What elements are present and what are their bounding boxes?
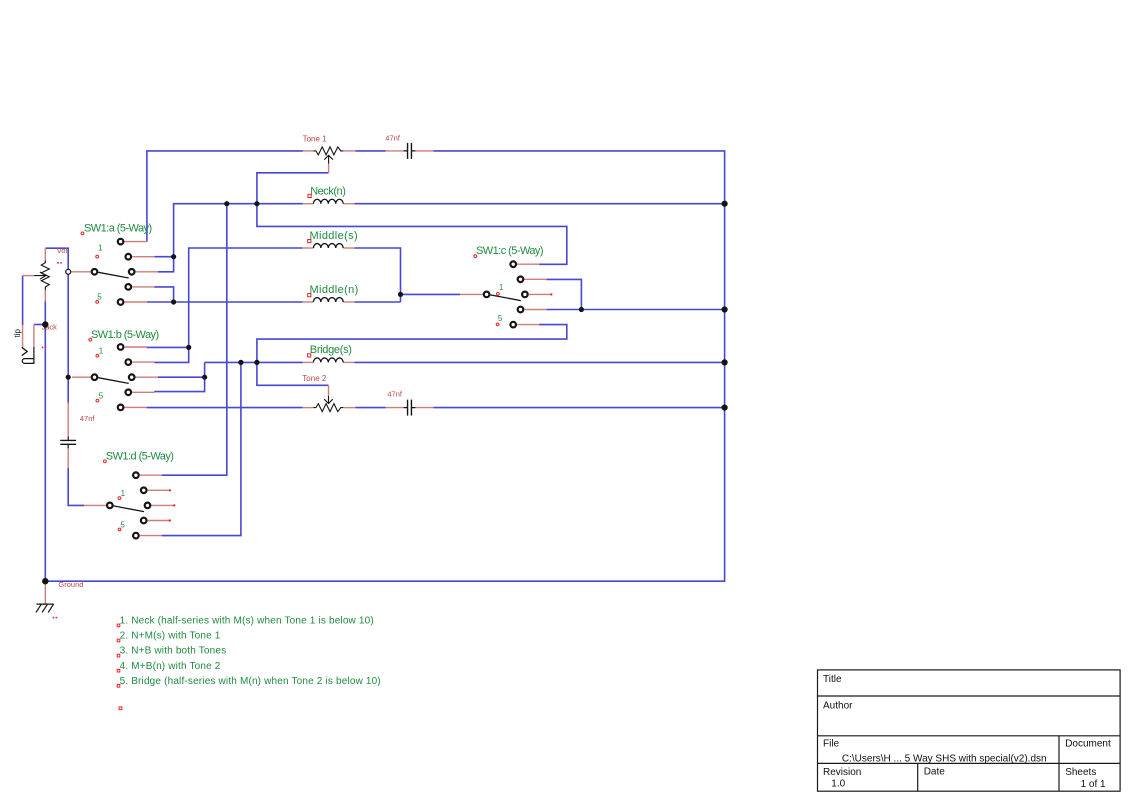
- svg-text:Author: Author: [823, 700, 853, 711]
- wire Neck right to rail: [355, 203, 725, 205]
- junction rail - Neck: [722, 201, 728, 207]
- junction SW1:a throws 2-3: [171, 254, 176, 259]
- svg-text:5: 5: [120, 521, 125, 530]
- pin stub C1 right pin: [415, 150, 433, 152]
- wire SW1:c throw2 down to throw4 row: [546, 279, 581, 309]
- marker Jack dots: [42, 347, 44, 349]
- marker Bridge(s) marker: [308, 354, 311, 357]
- SW1:d common terminal: [107, 503, 113, 509]
- SW1:a throw 2 terminal: [126, 254, 132, 260]
- pin stub Middle(n) left pin: [303, 301, 314, 303]
- SW1:a throw 3 terminal: [129, 269, 135, 275]
- SW1:a throw 4 terminal: [126, 284, 132, 290]
- SW1:d throw 5 terminal: [133, 533, 139, 539]
- junction Middle(s)-Middle(n) tie: [398, 292, 403, 297]
- junction rail - Tone2: [722, 405, 728, 411]
- jack J1 sleeve: [22, 347, 34, 363]
- SW1:c throw 4 pin stub: [525, 309, 547, 311]
- SW1:d throw 4 pin stub: [148, 520, 170, 522]
- svg-text:Bridge(s): Bridge(s): [310, 344, 352, 356]
- svg-text:SW1:c (5-Way): SW1:c (5-Way): [476, 245, 543, 257]
- pin stub Neck(n) right pin: [343, 203, 354, 205]
- switch SW1:d (5-Way): [107, 472, 174, 538]
- svg-text:Revision: Revision: [823, 767, 861, 778]
- svg-text:C:\Users\H ... 5 Way SHS with: C:\Users\H ... 5 Way SHS with special(v2…: [842, 753, 1047, 764]
- SW1:c throw 5 terminal: [510, 322, 516, 328]
- marker SW1:b pin5 marker: [96, 399, 99, 402]
- inductor Middle(s): [313, 244, 343, 248]
- SW1:d throw 5 pin stub: [140, 535, 162, 537]
- marker SW1:b marker: [89, 338, 92, 341]
- junction Jack node: [42, 321, 48, 327]
- SW1:d throw 3 terminal: [145, 503, 151, 509]
- svg-text:1: 1: [499, 283, 504, 292]
- wire jack pin2 to Vol bottom: [34, 324, 45, 326]
- svg-text:1: 1: [121, 489, 126, 498]
- svg-text:Middle(s): Middle(s): [310, 230, 358, 242]
- pin stub jack tip pin: [22, 325, 24, 347]
- SW1:b throw 4 terminal: [126, 390, 132, 396]
- marker SW1:c pin1 marker: [497, 293, 500, 296]
- pin stub Tone1 left pin: [303, 150, 314, 152]
- title block: [818, 670, 1121, 791]
- SW1:b throw 2 pin stub: [132, 361, 154, 363]
- svg-text:Date: Date: [924, 767, 946, 778]
- SW1:c throw 2 pin stub: [525, 278, 547, 280]
- wire Tone1 wiper to Neck node to SW1:c throw1: [257, 173, 567, 264]
- svg-text:SW1:b (5-Way): SW1:b (5-Way): [91, 329, 159, 341]
- marker Middle(n) marker: [308, 294, 311, 297]
- svg-text:47nf: 47nf: [387, 390, 403, 399]
- svg-text:Document: Document: [1065, 739, 1111, 750]
- junction SW1:b common tap: [66, 375, 71, 380]
- capacitor C1 47nf: [408, 143, 412, 159]
- wire SW1:a throw5 to Middle(n) left: [147, 301, 303, 303]
- wire SW1:b throw4 up to Bridge row: [154, 362, 204, 391]
- SW1:b throw 2 terminal: [126, 359, 132, 365]
- SW1:a throw 1 pin stub: [125, 241, 147, 243]
- pin stub Middle(s) left pin: [303, 247, 314, 249]
- SW1:d throw 4 terminal: [141, 518, 147, 524]
- pin stub SW1:b common pin: [72, 376, 91, 378]
- wire SW1:b throw2 up to Middle(s) left: [154, 248, 302, 362]
- SW1:a throw 1 terminal: [118, 239, 124, 245]
- pin stub Neck(n) left pin: [303, 203, 314, 205]
- wire Vol bottom to ground: [44, 301, 46, 581]
- SW1:b throw 5 terminal: [118, 405, 124, 411]
- marker stray: [119, 707, 122, 710]
- SW1:c common terminal: [484, 292, 490, 298]
- SW1:b common terminal: [92, 374, 98, 380]
- junction rail - Bridge: [722, 359, 728, 365]
- SW1:a throw 3 pin stub: [136, 271, 158, 273]
- pin stub Tone2 wiper pin: [328, 385, 330, 396]
- svg-text:Title: Title: [823, 674, 842, 685]
- SW1:c throw 5 pin stub: [517, 324, 539, 326]
- SW1:a throw 4 pin stub: [132, 286, 154, 288]
- wire Middle(n) right: [355, 301, 401, 303]
- switch SW1:c (5-Way): [484, 261, 551, 327]
- wire Tone1 cap to right rail and ground bus: [45, 151, 724, 581]
- pin stub Vol wiper pin: [23, 275, 34, 277]
- marker Neck(n) marker: [308, 194, 311, 197]
- svg-text:5: 5: [97, 293, 102, 302]
- svg-text:Vol: Vol: [57, 246, 68, 255]
- marker Middle(s) marker: [308, 240, 311, 243]
- marker SW1:a marker: [81, 232, 84, 235]
- wire SW1:a throw3 up to Neck row left: [158, 204, 303, 272]
- pin stub Bridge(s) left pin: [303, 361, 314, 363]
- wire Tone2 right pin to cap: [355, 407, 385, 409]
- marker SW1:a pin1 marker: [96, 255, 99, 258]
- svg-text:3. N+B with both Tones: 3. N+B with both Tones: [120, 646, 227, 657]
- pin stub Tone1 right pin: [343, 150, 355, 152]
- wire Tone1 right pin to cap: [355, 150, 385, 152]
- potentiometer Vol: [34, 260, 49, 290]
- capacitor C3 47nf series: [60, 440, 76, 444]
- pin stub Vol bottom pin: [44, 290, 46, 301]
- wire SW1:b throw1 to junction: [146, 346, 188, 348]
- wire SW1:c throw4 row to rail: [546, 309, 725, 311]
- SW1:c throw 3 pin stub: [529, 293, 551, 295]
- wire SW1:d throw5 up to Bridge row: [162, 362, 241, 535]
- marker Vol dots: [57, 262, 59, 264]
- SW1:b throw 5 pin stub: [125, 406, 147, 408]
- pin stub Middle(s) right pin: [343, 247, 354, 249]
- SW1:a throw 2 pin stub: [132, 256, 154, 258]
- svg-text:Sheets: Sheets: [1065, 767, 1096, 778]
- SW1:a throw 5 terminal: [118, 299, 124, 305]
- SW1:d throw 2 pin stub: [148, 489, 170, 491]
- pin stub series cap bottom pin: [67, 448, 69, 468]
- wire Middle(s) right down to SW1:c common: [355, 248, 461, 294]
- SW1:b throw 4 pin stub: [132, 391, 154, 393]
- ground symbol: [36, 604, 54, 612]
- svg-text:SW1:d (5-Way): SW1:d (5-Way): [106, 451, 174, 463]
- inductor Middle(n): [313, 298, 343, 302]
- svg-text:47nf: 47nf: [385, 134, 401, 143]
- SW1:c throw 2 terminal: [518, 277, 524, 283]
- marker SW1:c marker: [474, 255, 477, 258]
- svg-text:Middle(n): Middle(n): [310, 284, 359, 296]
- marker SW1:b pin1 marker: [96, 354, 99, 357]
- junction SW1:b throw3 tap: [202, 375, 207, 380]
- wire jack tip wire: [22, 276, 24, 325]
- svg-text:1. Neck (half-series with M(s): 1. Neck (half-series with M(s) when Tone…: [120, 616, 374, 627]
- wire Tone2 row left: [146, 407, 302, 409]
- pin stub Tone1 wiper pin: [328, 164, 330, 173]
- svg-text:Tone 1: Tone 1: [303, 134, 328, 143]
- SW1:d throw 3 pin stub: [152, 504, 174, 506]
- unconnected pin ends: [169, 293, 552, 521]
- junction Ground node: [42, 578, 48, 584]
- wire Middle junction stub down: [400, 294, 402, 302]
- SW1:a common terminal: [92, 269, 98, 275]
- svg-text:5. Bridge (half-series with M(: 5. Bridge (half-series with M(n) when To…: [120, 676, 381, 687]
- svg-text:Tone 2: Tone 2: [302, 374, 327, 383]
- svg-text:2. N+M(s) with Tone 1: 2. N+M(s) with Tone 1: [120, 631, 221, 642]
- pin stub series cap top pin: [67, 403, 69, 437]
- pin stub Bridge(s) right pin: [343, 361, 354, 363]
- pin stub Vol top pin: [44, 248, 46, 260]
- potentiometer Tone 1: [313, 147, 343, 164]
- pin stub jack sleeve pin: [33, 325, 35, 348]
- svg-text:tip: tip: [13, 329, 22, 338]
- node Vol wiper tap: [66, 269, 71, 274]
- svg-text:4. M+B(n) with Tone 2: 4. M+B(n) with Tone 2: [120, 661, 221, 672]
- SW1:d throw 1 pin stub: [140, 474, 162, 476]
- junction rail - SW1:c row: [722, 306, 728, 312]
- svg-text:5: 5: [99, 392, 104, 401]
- SW1:b throw 3 pin stub: [136, 376, 158, 378]
- junction SW1:c throw2-4: [579, 307, 584, 312]
- svg-text:File: File: [823, 739, 840, 750]
- pin stub C2 left pin: [386, 407, 404, 409]
- wire Bridge(s) right to rail: [355, 361, 725, 363]
- switch SW1:b (5-Way): [92, 344, 158, 410]
- SW1:b throw 1 terminal: [118, 344, 124, 350]
- jack J1 tip contact: [22, 347, 27, 355]
- SW1:a lever: [98, 272, 129, 278]
- SW1:c throw 1 terminal: [510, 261, 516, 267]
- SW1:d throw 2 terminal: [141, 488, 147, 494]
- pin stub ground pin: [44, 581, 46, 604]
- pin stub Middle(n) right pin: [343, 301, 354, 303]
- wire SW1:c throw5 to Tone2 wiper run: [257, 325, 567, 386]
- inductor Bridge(s): [313, 358, 343, 362]
- wire series cap to SW1:d common: [68, 468, 84, 506]
- marker SW1:d pin5 marker: [118, 528, 121, 531]
- junction Bridge row - SW1:d throw5: [238, 360, 243, 365]
- junction Bridge row - SW1:c throw5: [254, 360, 259, 365]
- marker SW1:d pin1 marker: [118, 497, 121, 500]
- inductor Neck(n): [313, 199, 343, 203]
- pin stub Tone2 right pin: [343, 407, 355, 409]
- SW1:b lever: [98, 378, 129, 384]
- SW1:b throw 1 pin stub: [125, 346, 147, 348]
- SW1:b throw 3 terminal: [129, 374, 135, 380]
- junction Neck row - SW1:d throw1: [224, 201, 229, 206]
- pin stub C1 left pin: [386, 150, 404, 152]
- pin stub C2 right pin: [415, 407, 433, 409]
- switch SW1:a (5-Way): [92, 239, 158, 305]
- potentiometer Tone 2: [313, 396, 343, 412]
- SW1:d lever: [114, 506, 145, 512]
- marker SW1:c pin5 marker: [496, 323, 499, 326]
- wire SW1:a throw4 down to throw5 row: [154, 287, 173, 302]
- SW1:c throw 3 terminal: [522, 292, 528, 298]
- svg-text:1 of 1: 1 of 1: [1081, 779, 1106, 790]
- wire SW1:d throw1 up to Neck row: [162, 204, 227, 476]
- wire SW1:b throw3 to junction: [158, 376, 205, 378]
- junction SW1:a throws 4-5: [171, 299, 176, 304]
- marker SW1:d marker: [104, 460, 107, 463]
- junction SW1:b throw1-2: [186, 345, 191, 350]
- pin stub SW1:c common pin: [460, 293, 483, 295]
- SW1:c throw 1 pin stub: [517, 263, 539, 265]
- pin stub SW1:d common pin: [84, 504, 106, 506]
- SW1:d throw 1 terminal: [133, 472, 139, 478]
- pin stub SW1:a common pin: [71, 271, 91, 273]
- junction Neck row - Tone1 wiper: [254, 201, 259, 206]
- wire Vol top to series-cap net: [45, 248, 68, 402]
- marker ground dots: [53, 617, 55, 619]
- capacitor C2 47nf: [408, 400, 412, 416]
- svg-text:Neck(n): Neck(n): [310, 185, 345, 197]
- svg-text:5: 5: [498, 314, 503, 323]
- SW1:a throw 5 pin stub: [125, 301, 147, 303]
- wire Tone2 cap to rail: [434, 407, 725, 409]
- svg-text:1.0: 1.0: [831, 779, 845, 790]
- SW1:c lever: [490, 295, 521, 301]
- pin stub Tone2 left pin: [303, 407, 314, 409]
- SW1:c throw 4 terminal: [518, 307, 524, 313]
- wire Bridge(s) left segment: [205, 361, 303, 363]
- svg-text:1: 1: [99, 346, 104, 355]
- svg-text:Ground: Ground: [58, 580, 83, 589]
- wire SW1:a throw2 to junction: [154, 256, 173, 258]
- marker SW1:a pin5 marker: [96, 301, 99, 304]
- svg-text:47nf: 47nf: [80, 414, 96, 423]
- wire SW1:a throw1 to Tone1 left: [147, 151, 303, 242]
- svg-text:SW1:a (5-Way): SW1:a (5-Way): [84, 223, 152, 235]
